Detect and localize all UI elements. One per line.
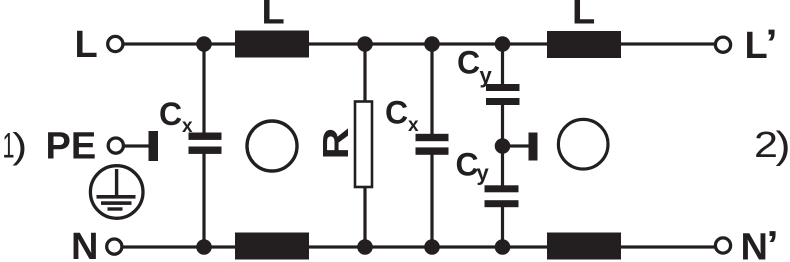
protective earth symbol long bar: [97, 195, 136, 199]
protective earth symbol circle: [90, 166, 143, 219]
Cy midpoint tab contact bar: [529, 133, 538, 161]
capacitor Cy2 top plate: [485, 185, 519, 192]
junction dot top rail at R: [357, 36, 373, 52]
svg-text:L: L: [745, 25, 768, 67]
junction dot top rail at Cx1: [196, 36, 212, 52]
svg-text:): ): [12, 125, 27, 166]
wire L-rail segment from choke L1 to choke L2: [308, 42, 548, 45]
wire Cy midpoint stub horizontal: [506, 144, 531, 147]
PE tab contact bar: [149, 131, 159, 161]
capacitor Cy1 bottom plate: [486, 98, 520, 105]
svg-text:L: L: [75, 24, 98, 66]
wire N-rail segment from choke L1 to choke L2: [308, 245, 548, 248]
wire vertical Cy branch bottom segment: [501, 205, 504, 248]
wire L-rail segment from choke L2 to terminal L': [620, 42, 715, 45]
junction dot bottom rail at R: [357, 239, 373, 255]
svg-text:y: y: [477, 160, 490, 185]
capacitor Cx2 top plate: [416, 134, 449, 141]
svg-text:’: ’: [766, 23, 778, 65]
wire PE stub horizontal: [124, 144, 150, 147]
svg-text:y: y: [480, 63, 493, 88]
terminal N': [715, 238, 730, 253]
wire vertical Cx2 branch lower: [430, 154, 433, 248]
junction dot top rail at Cy: [495, 36, 511, 52]
capacitor Cx1 top plate: [189, 133, 222, 140]
inductor bottom right choke winding: [547, 233, 621, 260]
wire N-rail segment from choke L2 to terminal N': [620, 245, 715, 248]
svg-text:N: N: [741, 227, 768, 262]
svg-text:L: L: [262, 0, 285, 33]
wire vertical Cy branch middle segment: [501, 103, 504, 187]
junction dot bottom rail at Cy: [495, 239, 511, 255]
junction dot top rail at Cx2: [424, 36, 440, 52]
capacitor Cx2 bottom plate: [416, 147, 449, 154]
wire L-rail segment from terminal L to choke L1: [122, 42, 237, 45]
junction dot bottom rail at Cx2: [424, 239, 440, 255]
terminal L': [715, 37, 730, 52]
capacitor Cy1 top plate: [486, 84, 520, 91]
svg-text:x: x: [408, 115, 419, 136]
wire N-rail segment from terminal N to choke L1: [122, 245, 237, 248]
capacitor Cy2 bottom plate: [485, 200, 519, 207]
svg-text:N: N: [71, 226, 98, 262]
svg-text:R: R: [315, 128, 356, 160]
protective earth symbol middle bar: [101, 201, 132, 205]
wire vertical Cy branch top segment: [501, 43, 504, 86]
terminal N: [107, 239, 122, 254]
svg-text:C: C: [159, 96, 182, 132]
wire vertical Cx1 branch lower: [202, 153, 205, 248]
svg-text:x: x: [182, 116, 193, 137]
svg-text:C: C: [456, 147, 479, 183]
inductor L (top left choke winding): [235, 31, 309, 58]
junction dot Cy midpoint: [495, 138, 511, 154]
toroid core circle right: [558, 119, 608, 169]
wire vertical R branch upper: [363, 43, 366, 103]
svg-text:C: C: [385, 94, 408, 130]
capacitor Cx1 bottom plate: [189, 147, 222, 154]
inductor bottom left choke winding: [235, 233, 309, 260]
wire vertical Cx1 branch upper: [202, 43, 205, 134]
toroid core circle left: [247, 121, 297, 171]
protective earth symbol stem: [115, 169, 118, 196]
protective earth symbol short bar: [108, 207, 123, 210]
svg-text:2: 2: [754, 124, 778, 165]
svg-text:C: C: [457, 45, 480, 81]
svg-text:PE: PE: [46, 126, 97, 168]
junction dot bottom rail at Cx1: [196, 239, 212, 255]
svg-text:’: ’: [767, 225, 779, 262]
terminal PE: [108, 138, 123, 153]
inductor L (top right choke winding): [547, 31, 621, 58]
wire vertical Cx2 branch upper: [430, 43, 433, 135]
terminal L: [108, 36, 123, 51]
resistor R body: [355, 102, 372, 188]
svg-text:L: L: [572, 0, 595, 33]
svg-text:): ): [776, 125, 790, 167]
wire vertical R branch lower: [363, 185, 366, 248]
